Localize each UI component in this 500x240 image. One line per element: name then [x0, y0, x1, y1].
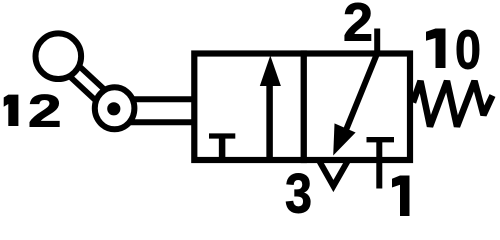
svg-text:2: 2	[343, 0, 373, 53]
flow arrow up in left box: shaft	[266, 80, 273, 158]
blocked port T at port 1: bar	[367, 137, 395, 142]
blocked port T in left box: bar	[209, 133, 235, 138]
port 2 stub line	[374, 29, 380, 57]
wire: plunger bottom line from pivot to valve body	[120, 119, 196, 125]
pivot dot	[107, 102, 120, 115]
valve body left box	[194, 54, 303, 161]
flow arrow up in left box: head	[260, 56, 281, 87]
roller circle of lever actuator	[36, 33, 82, 79]
label 1 (supply port)	[392, 176, 410, 217]
valve body right box	[304, 54, 410, 161]
label 12 (lever actuation): digit 1	[4, 95, 19, 126]
diagonal flow line 2 to 3 in right box	[346, 53, 377, 130]
svg-text:0: 0	[455, 18, 481, 80]
blocked port T in left box: stem	[219, 135, 226, 160]
svg-text:2: 2	[28, 86, 62, 137]
wire: plunger top line from pivot to valve body	[120, 96, 196, 102]
diagonal flow arrowhead pointing to port 3	[333, 123, 355, 155]
label 10 (spring return): digit 1	[426, 29, 446, 69]
svg-text:3: 3	[285, 162, 312, 218]
lever link arm between roller and pivot	[59, 56, 114, 108]
exhaust triangle port 3	[319, 160, 349, 186]
pivot circle of lever actuator	[95, 87, 135, 129]
port 1 stem line	[376, 140, 382, 189]
return spring 10	[413, 81, 493, 127]
